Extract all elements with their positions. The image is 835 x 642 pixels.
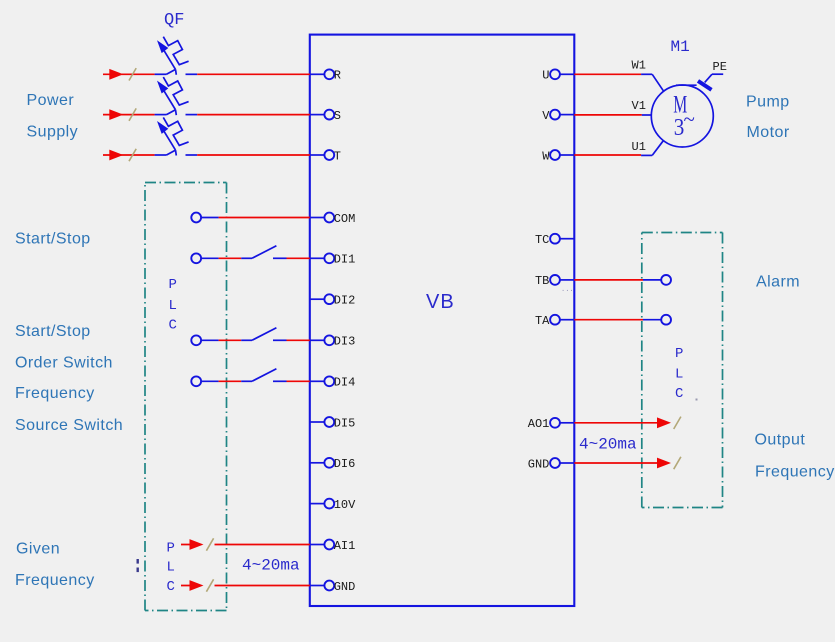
svg-text:U: U: [542, 69, 549, 83]
svg-text:P: P: [169, 277, 177, 293]
svg-text:AI1: AI1: [334, 539, 356, 553]
svg-text:T: T: [334, 149, 341, 163]
svg-text:DI2: DI2: [334, 294, 356, 308]
svg-text:TA: TA: [535, 314, 550, 328]
svg-text:...: ...: [561, 286, 574, 294]
svg-text:V1: V1: [632, 99, 646, 113]
svg-text:DI5: DI5: [334, 416, 356, 430]
svg-text:C: C: [167, 579, 175, 595]
svg-text:L: L: [169, 298, 177, 314]
svg-text:C: C: [169, 318, 177, 334]
svg-text:S: S: [334, 109, 341, 123]
svg-text:Alarm: Alarm: [756, 274, 800, 291]
svg-text:AO1: AO1: [528, 417, 550, 431]
svg-text:W: W: [542, 149, 550, 163]
svg-text:GND: GND: [528, 457, 550, 471]
svg-text:Order Switch: Order Switch: [15, 355, 113, 372]
svg-text:PE: PE: [713, 60, 727, 74]
svg-text:Source Switch: Source Switch: [15, 417, 123, 434]
svg-text:~: ~: [684, 107, 695, 132]
svg-text:DI3: DI3: [334, 335, 356, 349]
svg-text:4~20ma: 4~20ma: [242, 557, 300, 575]
svg-text:V: V: [542, 109, 550, 123]
svg-text:TC: TC: [535, 233, 549, 247]
svg-text:Output: Output: [755, 432, 806, 449]
svg-text:Motor: Motor: [747, 124, 790, 141]
svg-text:Given: Given: [16, 541, 60, 558]
svg-text:10V: 10V: [334, 498, 356, 512]
svg-text:C: C: [675, 386, 683, 402]
svg-text:Frequency: Frequency: [15, 572, 95, 589]
svg-text:P: P: [675, 346, 683, 362]
svg-text:TB: TB: [535, 274, 549, 288]
svg-text:Start/Stop: Start/Stop: [15, 231, 91, 248]
svg-text:DI1: DI1: [334, 253, 356, 267]
svg-text:L: L: [675, 367, 683, 383]
svg-text:Frequency: Frequency: [755, 464, 835, 481]
svg-text:Power: Power: [27, 92, 75, 109]
svg-text:DI4: DI4: [334, 376, 356, 390]
svg-text:VB: VB: [426, 291, 455, 313]
svg-text:R: R: [334, 69, 341, 83]
svg-text:L: L: [167, 560, 175, 576]
svg-text:Start/Stop: Start/Stop: [15, 323, 91, 340]
svg-text:U1: U1: [632, 140, 646, 154]
svg-text:QF: QF: [164, 11, 184, 30]
svg-text:DI6: DI6: [334, 457, 356, 471]
svg-text:4~20ma: 4~20ma: [579, 436, 637, 454]
svg-text:Frequency: Frequency: [15, 385, 95, 402]
svg-text:Supply: Supply: [27, 123, 79, 140]
svg-text:COM: COM: [334, 212, 356, 226]
svg-text:Pump: Pump: [746, 94, 790, 111]
svg-text:W1: W1: [632, 59, 646, 73]
svg-text:P: P: [167, 541, 175, 557]
svg-text:GND: GND: [334, 580, 356, 594]
svg-text:M1: M1: [671, 38, 690, 56]
